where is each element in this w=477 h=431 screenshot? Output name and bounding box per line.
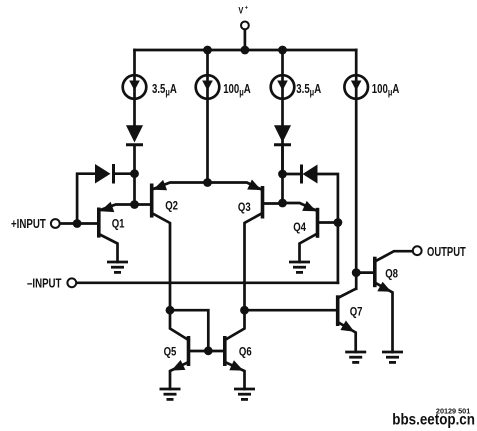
- svg-text:Q2: Q2: [165, 200, 178, 213]
- svg-text:Q8: Q8: [385, 268, 398, 281]
- svg-text:+INPUT: +INPUT: [11, 218, 46, 231]
- svg-text:Q6: Q6: [239, 346, 252, 359]
- svg-text:OUTPUT: OUTPUT: [427, 246, 466, 260]
- svg-text:3.5μA: 3.5μA: [152, 83, 177, 98]
- svg-text:–INPUT: –INPUT: [27, 277, 62, 290]
- svg-text:100μA: 100μA: [223, 83, 250, 98]
- svg-text:100μA: 100μA: [372, 83, 399, 98]
- svg-text:Q7: Q7: [350, 305, 363, 318]
- svg-text:Q5: Q5: [164, 346, 177, 359]
- svg-text:Q3: Q3: [238, 201, 251, 214]
- svg-text:bbs.eetop.cn: bbs.eetop.cn: [392, 412, 475, 429]
- svg-text:Q1: Q1: [112, 217, 125, 230]
- svg-text:+: +: [245, 4, 249, 12]
- svg-text:3.5μA: 3.5μA: [296, 83, 321, 98]
- svg-text:Q4: Q4: [293, 221, 306, 234]
- svg-text:V: V: [238, 6, 243, 16]
